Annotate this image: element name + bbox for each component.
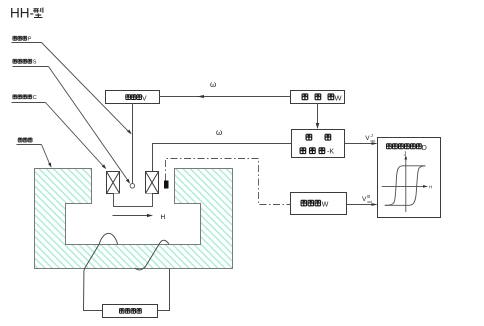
leader line C to coil: [46, 103, 106, 169]
wire V-box to oscillator: [160, 96, 291, 98]
left coil wire squiggle: [84, 233, 118, 310]
label 电磁铁: [18, 138, 32, 142]
svg-text:ω: ω: [216, 128, 222, 137]
pole U outline: [114, 194, 153, 207]
svg-text:J: J: [371, 133, 373, 138]
vibration rod wire: [132, 104, 134, 184]
svg-text:ω: ω: [210, 80, 216, 89]
box 数据处理单元D: [378, 138, 441, 218]
hysteresis loop descending: [385, 166, 426, 206]
box 振荡器W: [291, 91, 345, 104]
svg-text:H: H: [429, 185, 432, 190]
sample circle: [130, 184, 135, 189]
label 被测样品S: [13, 59, 37, 65]
svg-text:P: P: [28, 36, 32, 42]
box 高斯计W: [291, 193, 347, 215]
label 振动杆P: [13, 36, 32, 42]
hall probe: [164, 181, 169, 189]
right wire down to supply: [158, 269, 170, 311]
hysteresis loop ascending: [385, 166, 426, 206]
arrowhead right VBout: [372, 203, 378, 206]
leader line S to sample: [49, 67, 130, 183]
box 锁相放大器-K: [292, 130, 345, 158]
leader underline P: [12, 42, 42, 44]
svg-text:V: V: [142, 95, 147, 102]
label 检测线圈C: [13, 95, 37, 101]
H field arrow: [113, 215, 148, 217]
arrowhead C: [102, 164, 107, 169]
svg-text:HH-: HH-: [10, 6, 34, 21]
svg-text:V: V: [362, 196, 367, 203]
wire oscillator to lock-in: [317, 104, 319, 125]
leader line to yoke: [42, 145, 51, 167]
wire detection coil to lock-in: [153, 144, 292, 172]
svg-text:S: S: [33, 59, 37, 65]
arrowhead yoke: [48, 163, 51, 168]
leader underline S: [13, 66, 49, 68]
leader line P to rod: [42, 43, 131, 134]
label VJout: [365, 133, 375, 143]
svg-text:W: W: [322, 202, 329, 209]
svg-text:H: H: [161, 214, 166, 221]
svg-text:out: out: [371, 139, 376, 143]
coil right (with X): [146, 172, 159, 194]
dash-dot wire probe to gauss meter: [166, 159, 291, 205]
electromagnet yoke (hatched): [35, 169, 233, 269]
svg-text:out: out: [367, 200, 372, 204]
svg-text:B: B: [367, 194, 370, 199]
leader underline C: [12, 102, 46, 104]
svg-text:D: D: [422, 145, 427, 152]
svg-text:C: C: [33, 95, 37, 101]
box 振动头V: [106, 91, 160, 104]
box 扫描电源: [103, 305, 158, 318]
leader underline 电磁铁: [17, 144, 42, 146]
arrowhead left on wire: [197, 95, 204, 98]
arrowhead right VJout: [372, 142, 378, 145]
coil left (with X): [107, 172, 120, 194]
label VBout: [362, 194, 372, 204]
svg-text:-K: -K: [327, 148, 334, 155]
arrowhead S: [126, 179, 130, 184]
arrowhead down: [316, 123, 320, 129]
wire lock-in to data unit VJout: [345, 143, 373, 145]
hysteresis H axis: [382, 185, 424, 187]
arrowhead P: [127, 130, 132, 135]
svg-text:W: W: [335, 94, 343, 103]
right coil wire squiggle: [135, 240, 169, 270]
wire gauss meter to data unit VBout: [347, 204, 373, 206]
svg-text:J: J: [404, 152, 407, 158]
hysteresis J axis: [405, 159, 407, 213]
